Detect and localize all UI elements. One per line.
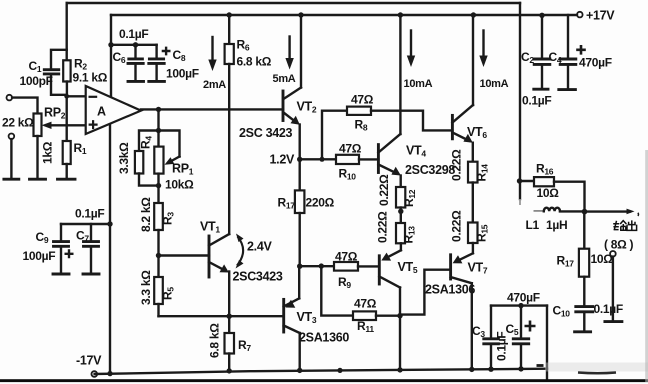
svg-text:2.4V: 2.4V [247, 240, 272, 254]
terminal -17V [76, 354, 102, 377]
svg-text:-17V: -17V [76, 354, 102, 368]
label 2.4V with arc [236, 234, 273, 269]
capacitor C9 100uF [23, 224, 74, 274]
node output junction at L1 [582, 209, 588, 215]
transistor VT2 2SC3423 [239, 88, 317, 141]
wire feedback branch down to R2 [65, 3, 67, 60]
wire C3/C5 top bus 470uF [491, 291, 547, 309]
svg-text:0.22Ω: 0.22Ω [377, 174, 391, 206]
capacitor C5 470uF [506, 306, 536, 372]
svg-text:0.22Ω: 0.22Ω [450, 210, 464, 242]
svg-text:100pF: 100pF [20, 74, 53, 88]
svg-text:47Ω: 47Ω [335, 250, 358, 264]
svg-text:3.3kΩ: 3.3kΩ [117, 142, 131, 174]
node C6 tap [133, 42, 138, 47]
transistor VT3 2SA1360 [284, 298, 350, 344]
op-amp U1 A [86, 86, 141, 134]
resistor R1 1k to ground [41, 96, 87, 179]
svg-text:6.8 kΩ: 6.8 kΩ [208, 323, 222, 358]
svg-text:470µF: 470µF [507, 291, 540, 305]
svg-text:+17V: +17V [586, 9, 615, 23]
transistor VT1 2SC3423 [200, 220, 283, 284]
capacitor C8 100uF [149, 45, 199, 82]
resistor R6 6.8k [225, 38, 272, 235]
wire op-amp V- pin down to -17V rail [109, 124, 111, 373]
svg-text:0.1µF: 0.1µF [75, 207, 104, 221]
capacitor C6 0.1uF [113, 27, 149, 81]
wire VT1 emitter down to VT3 base line [228, 272, 230, 317]
terminal input hot [7, 95, 13, 101]
wire 1.2V node to R10 [300, 158, 336, 160]
svg-text:6.8 kΩ: 6.8 kΩ [237, 55, 272, 69]
terminal input ground [4, 134, 19, 180]
wire R5 bottom to VT3 base [159, 315, 284, 317]
node R4/RP1 bottom junction [156, 183, 161, 188]
svg-text:47Ω: 47Ω [354, 297, 377, 311]
svg-text:47Ω: 47Ω [351, 93, 374, 107]
wire decoupling cap bus [111, 44, 157, 46]
resistor R3 8.2k [139, 197, 176, 277]
svg-text:47Ω: 47Ω [339, 142, 362, 156]
current arrow 5mA [273, 37, 296, 86]
wire cap bus C9/C7 [61, 207, 110, 225]
svg-text:470µF: 470µF [579, 56, 612, 70]
svg-text:2SA1306: 2SA1306 [425, 283, 475, 297]
gray scan smudge bottom right [545, 363, 648, 374]
svg-text:L1: L1 [526, 218, 540, 232]
wire output node down to R4/RP1 [156, 109, 161, 133]
resistor R13 0.22R [376, 211, 417, 250]
wire VT3 emitter up to R9 node [298, 266, 300, 298]
wire VT2 collector to +17V rail [298, 12, 303, 87]
resistor R15 0.22R [450, 210, 490, 253]
transistor VT5 [379, 250, 418, 287]
resistor R17 220R [278, 159, 335, 266]
wire top feedback line from output rail [67, 2, 520, 4]
svg-text:0.1µF: 0.1µF [119, 27, 148, 41]
wire op-amp output to VT2 base [141, 108, 283, 110]
svg-text:100µF: 100µF [23, 249, 56, 263]
node junction on V+ wire [108, 42, 113, 47]
wire -17V bottom rail [95, 369, 547, 374]
resistor R16 10R [520, 162, 585, 212]
svg-text:0.1µF: 0.1µF [522, 94, 551, 108]
resistor R11 47R [321, 266, 400, 334]
wire right feedback rail down to output node [519, 3, 521, 205]
wire input to RP2 [12, 98, 37, 114]
wire VT2 emitter to 1.2V node [299, 125, 301, 160]
wire VT6 collector to +17V rail [471, 12, 476, 105]
current arrow 10mA left [404, 31, 433, 91]
transistor VT6 [452, 105, 487, 143]
wire to op-amp inverting input [67, 95, 86, 97]
svg-text:2SC3423: 2SC3423 [233, 270, 283, 284]
capacitor C4 470uF [549, 15, 612, 90]
wire VT1 base [159, 254, 210, 256]
svg-text:2SC 3423: 2SC 3423 [239, 126, 293, 140]
svg-text:2mA: 2mA [203, 79, 226, 91]
svg-text:1kΩ: 1kΩ [41, 141, 55, 164]
svg-text:0.22Ω: 0.22Ω [376, 211, 390, 243]
svg-text:2SC3298: 2SC3298 [405, 163, 455, 177]
node R9 junction [297, 263, 324, 269]
node inverting input junction [64, 94, 69, 99]
label 8 ohm [604, 238, 633, 252]
resistor R4 3.3k parallel branch [117, 131, 159, 186]
node R7 on rail [227, 368, 232, 373]
svg-text:10kΩ: 10kΩ [165, 178, 194, 192]
node R16 junction on feedback rail [517, 178, 522, 183]
svg-text:100µF: 100µF [166, 67, 199, 81]
wire VT4 collector to +17V rail [398, 12, 403, 134]
svg-text:22 kΩ: 22 kΩ [2, 116, 34, 130]
node output junction [156, 107, 161, 112]
capacitor C10 0.1uF [553, 302, 623, 332]
wire R6/VT1 collector column [227, 12, 232, 44]
gray scan edge right [645, 150, 648, 382]
wire op-amp V+ pin to +17V rail [110, 15, 112, 97]
current arrow 2mA [203, 37, 226, 91]
label output (shuchu) [613, 220, 636, 230]
capacitor C3 0.1uF [472, 306, 509, 372]
svg-text:220Ω: 220Ω [306, 196, 335, 210]
capacitor C2 0.1uF [521, 13, 551, 108]
node VT1 base junction [156, 253, 161, 258]
resistor R14 0.22R [450, 143, 490, 223]
wire +17V supply rail [111, 14, 577, 16]
capacitor C1 100pF parallel loop [20, 50, 67, 95]
node output midpoint R12/R13 [398, 209, 403, 214]
svg-text:1µH: 1µH [546, 218, 567, 232]
terminal speaker return [605, 251, 622, 322]
inductor L1 1uH [526, 208, 585, 232]
wire VT7 base branch to R11 node [400, 270, 451, 315]
svg-text:9.1 kΩ: 9.1 kΩ [73, 71, 108, 85]
wire VT5 collector to rail [397, 288, 402, 373]
resistor R2 9.1k [63, 57, 107, 97]
current arrow 10mA right [479, 31, 508, 91]
resistor R10 47R [336, 142, 378, 182]
node stray on rail [337, 368, 342, 373]
resistor R5 3.3k [139, 270, 176, 316]
node decoupling junction on V- wire [107, 221, 112, 226]
svg-text:10mA: 10mA [480, 78, 509, 90]
bottom border band [0, 379, 648, 382]
node VT1 emitter/R7 junction [227, 314, 232, 319]
wire down to R3 [157, 186, 159, 203]
terminal +17V [577, 9, 615, 23]
svg-text:10Ω: 10Ω [537, 186, 560, 200]
svg-text:5mA: 5mA [273, 73, 296, 85]
transistor VT4 2SC3298 [378, 134, 455, 177]
wire VT7 collector to rail [469, 283, 474, 372]
transistor VT7 2SA1306 [425, 253, 488, 296]
svg-text:0.1µF: 0.1µF [594, 302, 623, 316]
svg-text:2SA1360: 2SA1360 [299, 331, 349, 345]
wire output lead with terminal [585, 209, 639, 216]
wire VT3 collector to rail [297, 333, 302, 373]
node V- rail on bottom rail [107, 371, 112, 376]
svg-text:8.2 kΩ: 8.2 kΩ [139, 197, 153, 232]
svg-text:( 8Ω ): ( 8Ω ) [604, 238, 633, 252]
resistor R7 6.8k [208, 316, 252, 371]
resistor R17 10R zobel [557, 212, 614, 306]
resistor R8 47R to VT6 base [320, 93, 453, 162]
wire C5 minus corner down [537, 306, 548, 380]
svg-text:0.22Ω: 0.22Ω [450, 149, 464, 181]
svg-text:10mA: 10mA [404, 78, 433, 90]
resistor R9 47R [300, 250, 380, 291]
capacitor C7 [76, 224, 99, 274]
node 1.2V [270, 153, 303, 167]
svg-text:A: A [97, 105, 106, 119]
svg-text:3.3 kΩ: 3.3 kΩ [139, 270, 153, 305]
resistor R12 0.22R [377, 174, 417, 211]
potentiometer RP1 10k [154, 131, 194, 192]
potentiometer RP2 22k [2, 106, 86, 180]
svg-text:1.2V: 1.2V [270, 153, 295, 167]
